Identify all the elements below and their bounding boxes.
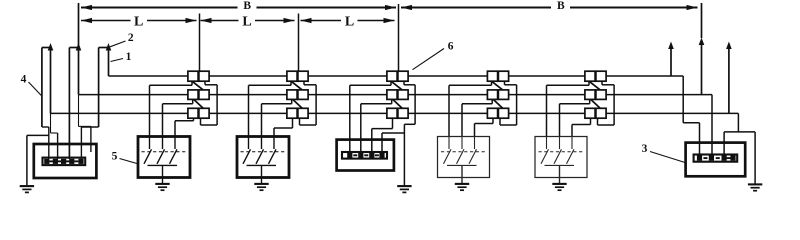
switch box tap 4 pole 1 blade (444, 149, 452, 164)
tap 1 diagonal link row2-row3 (194, 99, 204, 108)
wire left loop 1 outer leg (41, 48, 43, 128)
tap 2 connector row 3 left cell (287, 108, 297, 118)
switch box tap 1 bottom bus (148, 164, 178, 166)
wire bus 1 drop step horizontal (683, 122, 699, 124)
tap 4 branch 2 drop to box (461, 104, 463, 137)
wire bus conductor 2 segment 2 (209, 94, 287, 96)
ground at left of box 1 (20, 185, 34, 187)
terminal strip in box 3 (694, 155, 738, 162)
wire bus conductor 2 segment 3 (308, 94, 387, 96)
tap 1 connector row 1 left cell (188, 71, 198, 81)
tap 4 branch 1 horizontal (449, 84, 492, 86)
tap 1 branch 2 stub (192, 99, 194, 103)
switch box tap 4 bottom bus (447, 164, 477, 166)
wire bus conductor 3 segment end (606, 112, 738, 114)
wire bus conductor 1 segment 4 (408, 75, 487, 77)
tap 5 connector row 3 left cell (585, 108, 595, 118)
tap 2 branch 1 stub (290, 81, 292, 85)
dimension arrow L1 left (81, 18, 92, 23)
svg-text:1: 1 (126, 51, 132, 63)
switch box tap 5 dashed gang bar (539, 151, 584, 153)
wire bus 2 right turn-up with arrow (dimension anchor) (701, 42, 703, 95)
wire bus conductor 2 segment 5 (509, 94, 585, 96)
dimension arrow B-right-span right end (687, 5, 698, 10)
switch box under tap 2 (237, 137, 289, 178)
switch box tap 5 pole 2 upper lead (559, 137, 561, 150)
tap 3 branch 2 drop into terminal box 4 (360, 104, 362, 153)
tap 5 branch 2 stub (589, 99, 591, 103)
switch box tap 1 dashed gang bar (142, 151, 187, 153)
switch box tap 4 earth drop (461, 165, 463, 183)
tap 3 connector row 3 left cell (387, 108, 397, 118)
wire left loop 2 drop into box 1 (90, 126, 92, 152)
wire left loop 1 drop into box 1 (57, 133, 59, 159)
tap 4 bracket bottom horizontal (500, 124, 517, 126)
wire left loop 1 step horizontal (51, 132, 58, 134)
tap 3 bracket bottom horizontal (404, 123, 415, 125)
switch box tap 1 pole 1 blade (144, 149, 152, 164)
ground at right of box 3 (748, 183, 762, 185)
tap 3 branch 1 horizontal (350, 84, 391, 86)
switch box tap 2 pole 1 blade (243, 149, 251, 164)
tap 2 branch 2 stub (291, 99, 293, 103)
switch box tap 2 pole 3 upper lead (273, 137, 275, 150)
terminal box 3 (right end box) (686, 143, 746, 177)
wire earth drop at left (26, 135, 28, 185)
tap 5 branch 2 drop to box (559, 104, 561, 137)
tap 1 bracket return to row 3 (200, 118, 202, 125)
switch box tap 5 pole 3 upper lead (571, 137, 573, 150)
tap 2 diagonal link row2-row3 (293, 99, 303, 108)
svg-text:B: B (243, 0, 251, 12)
tap 2 branch 2 drop to box (261, 104, 263, 137)
dimension line L span 3 (301, 20, 395, 22)
wire drop into terminal strip of box 3 (723, 132, 725, 155)
tap 1 connector row 2 right cell (199, 90, 209, 100)
wire bus conductor 3 segment start (51, 112, 188, 114)
tap 2 branch 1 horizontal (249, 84, 292, 86)
svg-text:6: 6 (448, 41, 454, 53)
wire earth tee into terminal box 4 (382, 132, 404, 134)
switch box tap 5 earth drop (559, 165, 561, 183)
terminal strip in box 1 (43, 158, 86, 166)
tap 3 diagonal link row1-row2 (391, 81, 402, 90)
wire left loop 1 arrowed leg (50, 47, 52, 114)
wire left loop 1 outer drop into box 1 (48, 127, 50, 159)
wire bus 3 drop (737, 113, 739, 131)
tap 4 connector row 3 right cell (498, 108, 508, 118)
dimension line B (left span) (81, 7, 396, 9)
ground below switch box tap 2 (254, 183, 268, 185)
tap 4 diagonal link row1-row2 (492, 81, 503, 90)
tap 1 diagonal link row1-row2 (192, 81, 203, 90)
terminal box 1 (left feed box) (34, 144, 97, 178)
arrow up on left loop 2 (76, 43, 82, 51)
tap 2 diagonal link row1-row2 (291, 81, 302, 90)
wire left loop 3 step horizontal (81, 126, 98, 128)
svg-text:L: L (134, 14, 143, 29)
arrow up on bus 3 right end (726, 42, 732, 50)
tap 5 branch 3 stub (590, 118, 592, 124)
tap 5 diagonal link row1-row2 (589, 81, 600, 90)
tap 3 branch 2 horizontal (361, 103, 392, 105)
switch box tap 4 pole 3 blade (469, 149, 477, 164)
wire bus conductor 1 segment 5 (509, 75, 585, 77)
tap 1 branch 1 drop to box (149, 85, 151, 136)
tap 3 bracket stub down (403, 81, 405, 85)
wire earth tee from box 1 feed (27, 134, 49, 136)
wire bus 1 drop into terminal strip (699, 123, 701, 155)
tap 2 branch 1 drop to box (248, 85, 250, 136)
ground below switch box tap 4 (455, 183, 469, 185)
label 5 leader (120, 159, 138, 164)
switch box tap 5 pole 2 blade (554, 149, 562, 164)
tap 1 branch 2 drop to box (162, 104, 164, 137)
tap 5 diagonal link row2-row3 (591, 99, 601, 108)
tap 5 bracket top horizontal (602, 84, 614, 86)
tap 3 branch 2 stub (391, 99, 393, 103)
switch box tap 2 pole 3 blade (269, 149, 277, 164)
terminal strip in box 4 (342, 152, 387, 159)
wire bus conductor 2 segment end (606, 94, 712, 96)
tap 5 bracket return to row 3 (597, 118, 599, 125)
wire bus 1 right turn-up with arrow (670, 46, 672, 77)
switch box tap 5 pole 1 blade (541, 149, 549, 164)
svg-text:B: B (557, 0, 565, 12)
tap 5 branch 3 horizontal (572, 124, 591, 126)
wire left loop 1 continuation below bus 3 (50, 113, 52, 133)
svg-text:2: 2 (128, 32, 134, 44)
tap 3 connector row 3 right cell (398, 108, 408, 118)
wire left loop 2 top joint (69, 47, 78, 49)
tap 4 branch 1 stub (491, 81, 493, 85)
wire bus conductor 3 segment 2 (209, 112, 287, 114)
tap 3 diagonal link row2-row3 (393, 99, 403, 108)
dimension arrow L2 right (284, 18, 295, 23)
wire bus conductor 3 segment 5 (509, 112, 585, 114)
switch box tap 4 pole 2 blade (457, 149, 465, 164)
wire left loop 2 continuation below bus 2 (78, 95, 80, 127)
switch box tap 1 pole 2 blade (157, 149, 165, 164)
tap 2 branch 2 horizontal (262, 103, 292, 105)
tap 4 bracket return to row 3 (499, 118, 501, 125)
tap 1 connector row 3 right cell (199, 108, 209, 118)
tap 3 connector row 2 left cell (387, 90, 397, 100)
tap 4 bracket top horizontal (505, 84, 517, 86)
ground below switch box tap 5 (552, 183, 566, 185)
tap 3 connector row 1 right cell (398, 71, 408, 81)
tap 1 branch 3 stub (193, 118, 195, 121)
switch box tap 1 pole 1 upper lead (149, 137, 151, 150)
dimension arrow L2 left (201, 18, 212, 23)
wire left loop 2 step horizontal (79, 125, 91, 127)
tap 4 diagonal link row2-row3 (493, 99, 503, 108)
ground below tap 3 (397, 185, 411, 187)
svg-text:5: 5 (112, 151, 118, 163)
switch box tap 4 pole 2 upper lead (461, 137, 463, 150)
label 3 leader (650, 152, 685, 163)
tap 1 bracket stub down (204, 81, 206, 85)
wire bus conductor 1 segment end (606, 75, 683, 77)
switch box tap 2 earth drop (261, 165, 263, 183)
switch box tap 1 pole 3 upper lead (174, 137, 176, 150)
tap 2 bracket stub down (303, 81, 305, 85)
tap 1 branch 1 stub (191, 81, 193, 85)
tap 5 bracket right vertical (613, 85, 615, 125)
tap 2 bracket right vertical (315, 85, 317, 125)
tap 4 bracket right vertical (516, 85, 518, 125)
tap 3 branch 3 horizontal (372, 128, 393, 130)
tap 1 branch 3 drop to box (174, 121, 176, 137)
tap 3 bracket right vertical (414, 85, 416, 125)
tap 1 branch 1 horizontal (150, 84, 193, 86)
tap 2 connector row 1 left cell (287, 71, 297, 81)
dimension arrow B-right-span left end (401, 5, 412, 10)
dimension arrow B-left-span left end (81, 5, 92, 10)
switch box tap 4 pole 3 upper lead (474, 137, 476, 150)
dimension arrow L3 right (384, 18, 395, 23)
switch box tap 2 dashed gang bar (241, 151, 286, 153)
tap 3 connector row 2 right cell (398, 90, 408, 100)
tap 1 connector row 3 left cell (188, 108, 198, 118)
svg-text:4: 4 (21, 74, 27, 86)
wire bus conductor 3 segment 4 (408, 112, 487, 114)
tap 4 connector row 1 left cell (487, 71, 497, 81)
switch box tap 4 pole 1 upper lead (448, 137, 450, 150)
wire drop conductor into tap 3 (398, 4, 400, 71)
tap 5 bracket stub down (601, 81, 603, 85)
tap 2 bracket bottom horizontal (300, 124, 317, 126)
tap 2 connector row 1 right cell (298, 71, 308, 81)
svg-text:L: L (345, 14, 354, 29)
wire left loop 3 drop into box 1 (80, 127, 82, 159)
tap 4 branch 3 drop to box (474, 124, 476, 137)
tap 3 branch 1 stub (390, 81, 392, 85)
dimension boundary tick at right end x=701.5 (701, 3, 703, 38)
tap 2 branch 3 horizontal (274, 127, 293, 129)
tap 2 bracket return to row 3 (299, 118, 301, 125)
wire left loop 3 top joint (99, 47, 109, 49)
tap 2 branch 3 drop to box (273, 128, 275, 137)
wire bus conductor 1 segment start (109, 75, 188, 77)
tap 5 connector row 2 right cell (596, 90, 606, 100)
tap 1 branch 2 horizontal (163, 103, 193, 105)
wire left loop 3 arrowed leg (conductor 1 end) (108, 47, 110, 77)
tap 2 connector row 2 right cell (298, 90, 308, 100)
switch box under tap 4 (438, 137, 490, 178)
switch box tap 1 pole 3 blade (170, 149, 178, 164)
tap 3 bracket top horizontal (404, 84, 415, 86)
tap 1 bracket top horizontal (205, 84, 217, 86)
tap 5 connector row 2 left cell (585, 90, 595, 100)
tap 5 connector row 3 right cell (596, 108, 606, 118)
tap 5 connector row 1 left cell (585, 71, 595, 81)
switch box tap 2 bottom bus (247, 164, 277, 166)
tap 5 connector row 1 right cell (596, 71, 606, 81)
arrow up on bus 2 right end (699, 38, 705, 46)
wire bus conductor 1 segment 2 (209, 75, 287, 77)
switch box tap 5 bottom bus (545, 164, 575, 166)
switch box tap 2 pole 2 upper lead (261, 137, 263, 150)
tap 1 branch 3 horizontal (175, 120, 194, 122)
switch box tap 4 dashed gang bar (441, 151, 486, 153)
dimension line L span 2 (201, 20, 295, 22)
dimension line B (right span) (401, 7, 698, 9)
label 4 leader (29, 82, 42, 96)
switch box tap 2 pole 1 upper lead (248, 137, 250, 150)
arrow up on left loop 3 (106, 43, 112, 51)
wire earth drop at right (754, 132, 756, 184)
switch box under tap 5 (535, 137, 587, 178)
dimension arrow L3 left (301, 18, 312, 23)
wire drop conductor into tap 2 (298, 14, 300, 72)
wire bus conductor 2 segment 4 (408, 94, 487, 96)
wire left loop 2 outer leg (68, 48, 70, 160)
wire earth drop at tap 3 (403, 124, 405, 185)
switch box tap 5 pole 3 blade (567, 149, 575, 164)
svg-text:L: L (242, 14, 251, 29)
tap 4 bracket stub down (504, 81, 506, 85)
tap 5 branch 1 drop to box (546, 85, 548, 136)
label 2 leader (110, 41, 126, 47)
label 1 leader (111, 59, 124, 62)
dimension arrow L1 right (186, 18, 197, 23)
tap 4 connector row 2 right cell (498, 90, 508, 100)
tap 2 bracket top horizontal (304, 84, 316, 86)
wire left loop 3 outer leg (98, 48, 100, 128)
tap 1 connector row 2 left cell (188, 90, 198, 100)
tap 3 connector row 1 left cell (387, 71, 397, 81)
wire left loop 1 top joint (42, 47, 51, 49)
wire bus 3 right turn-up with arrow (728, 46, 730, 114)
dimension line L span 1 (81, 20, 197, 22)
tap 5 branch 1 stub (588, 81, 590, 85)
wire bus conductor 2 segment start (79, 94, 188, 96)
tap 3 branch 3 stub (392, 118, 394, 128)
tap 4 branch 3 horizontal (475, 123, 494, 125)
tap 1 bracket bottom horizontal (201, 124, 218, 126)
tap 2 branch 3 stub (292, 118, 294, 128)
switch box tap 1 pole 2 upper lead (162, 137, 164, 150)
tap 4 branch 1 drop to box (448, 85, 450, 136)
wire bus 2 drop into terminal strip (711, 95, 713, 155)
wire earth tee drop into terminal box 4 (381, 133, 383, 153)
wire drop conductor into tap 1 (199, 14, 201, 72)
tap 1 bracket right vertical (216, 85, 218, 125)
tap 4 branch 2 stub (491, 99, 493, 103)
label 6 leader (413, 49, 445, 70)
tap 5 branch 1 horizontal (547, 84, 590, 86)
tap 4 connector row 1 right cell (498, 71, 508, 81)
tap 4 connector row 3 left cell (487, 108, 497, 118)
terminal box 4 (under tap 3) (337, 140, 394, 171)
wire bus 3 drop bottom horizontal (724, 131, 755, 133)
switch box tap 5 pole 1 upper lead (546, 137, 548, 150)
dimension arrow B-left-span right end (385, 5, 396, 10)
tap 3 branch 3 drop into terminal box 4 (371, 129, 373, 153)
switch box tap 2 pole 2 blade (256, 149, 264, 164)
tap 2 connector row 3 right cell (298, 108, 308, 118)
tap 4 branch 3 stub (492, 118, 494, 123)
tap 2 connector row 2 left cell (287, 90, 297, 100)
switch box tap 1 earth drop (162, 165, 164, 183)
wire left loop 2 arrowed leg (dimension anchor) (78, 3, 80, 95)
tap 4 connector row 2 left cell (487, 90, 497, 100)
tap 5 branch 3 drop to box (571, 125, 573, 137)
tap 5 branch 2 horizontal (560, 103, 590, 105)
arrow up on bus 1 right end (668, 42, 674, 50)
tap 3 branch 1 drop into terminal box 4 (349, 85, 351, 152)
wire bus conductor 3 segment 3 (308, 112, 387, 114)
wire left loop 1 outer step horizontal (42, 126, 49, 128)
tap 1 connector row 1 right cell (199, 71, 209, 81)
wire bus conductor 1 segment 3 (308, 75, 387, 77)
tap 5 bracket bottom horizontal (598, 124, 615, 126)
ground below switch box tap 1 (155, 183, 169, 185)
svg-text:3: 3 (642, 143, 648, 155)
switch box under tap 1 (138, 137, 190, 178)
arrow up on left loop 1 (48, 43, 54, 51)
tap 4 branch 2 horizontal (462, 103, 492, 105)
wire bus 1 drop to box 3 (682, 76, 684, 123)
